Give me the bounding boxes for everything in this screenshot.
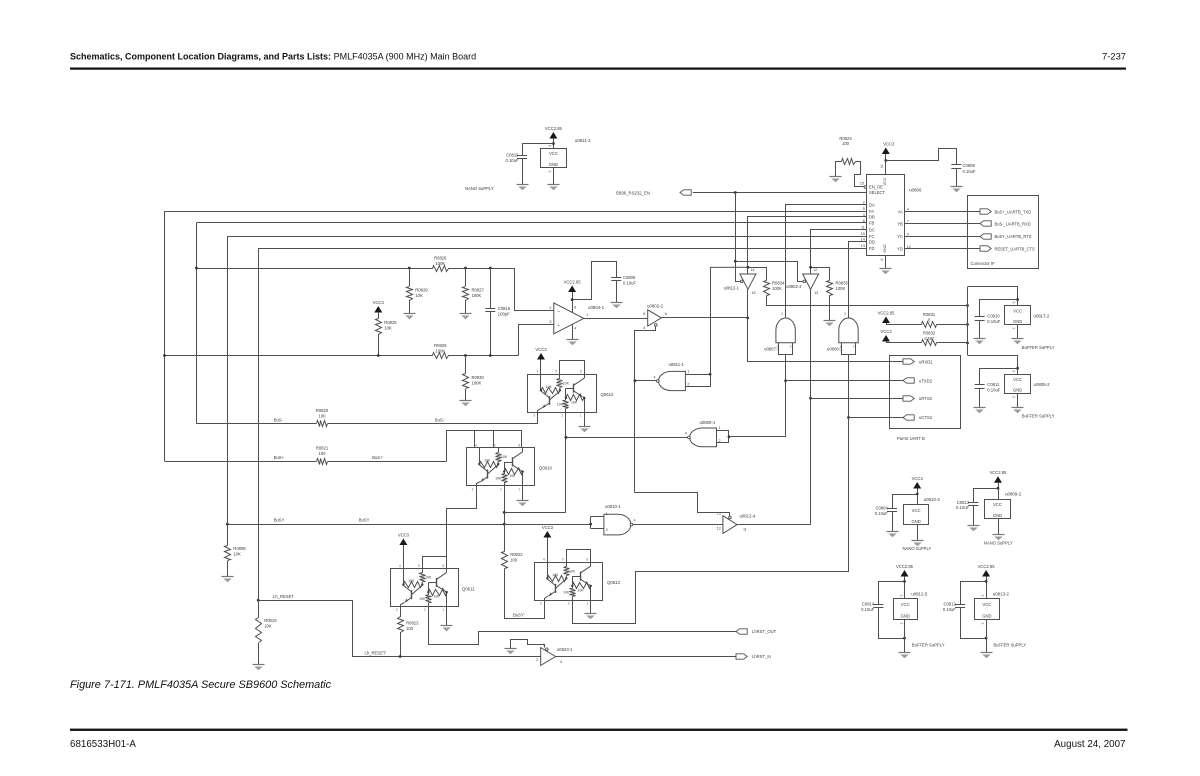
wire U0811-1 output — [635, 380, 657, 382]
svg-text:4: 4 — [475, 443, 477, 447]
junction dot u0809-2 — [997, 487, 1000, 490]
svg-text:2: 2 — [606, 528, 608, 532]
ground under R0808 — [222, 577, 234, 583]
svg-text:10K: 10K — [546, 385, 553, 389]
junction dot Q0612 left node — [540, 389, 542, 391]
junction dot Q0611 mid node — [421, 583, 423, 585]
junction dot R0827 tap — [464, 267, 467, 270]
inverter U0802-3 — [786, 268, 818, 295]
junction dot FA tap — [163, 354, 166, 357]
svg-text:VCC3: VCC3 — [398, 532, 410, 537]
AND gate U0807-1 — [764, 312, 795, 355]
wire FA drop — [164, 211, 166, 461]
svg-text:2: 2 — [1012, 396, 1016, 398]
wire cap lead C0804 — [893, 495, 918, 509]
junction dot R0834 tap — [747, 266, 750, 269]
resistor R0822 100 — [502, 524, 524, 619]
U0806 EN_OE bubble — [860, 182, 867, 189]
wire BuS- line — [196, 418, 537, 424]
svg-text:C0806: C0806 — [623, 275, 636, 280]
svg-text:LhRST_OUT: LhRST_OUT — [752, 629, 777, 634]
U0823-1 enable bubble — [546, 648, 549, 651]
svg-text:100K: 100K — [836, 286, 846, 291]
svg-text:8: 8 — [586, 558, 588, 562]
resistor R0819 10K — [256, 600, 278, 664]
supply label u0809-2 — [984, 541, 1013, 546]
U0802-2 enable bubble — [655, 324, 658, 327]
wire FB drop — [196, 223, 198, 424]
svg-text:VCC: VCC — [1013, 377, 1022, 382]
wire YA to TXD — [905, 211, 981, 213]
resistor Q0610 base 10K — [480, 459, 499, 468]
junction dot R0829 tap — [408, 267, 411, 270]
wire gnd u0809-2 — [998, 519, 1000, 535]
svg-text:DD: DD — [869, 239, 875, 244]
svg-text:VCC: VCC — [1013, 308, 1022, 313]
U0812-4 enable bubble — [729, 516, 732, 519]
VCC arrow u0810-2 — [912, 476, 924, 505]
svg-text:VCC2.85: VCC2.85 — [878, 310, 896, 315]
resistor Q0610 pullup 10K — [496, 448, 508, 464]
svg-text:FA: FA — [869, 209, 874, 214]
svg-text:10K: 10K — [563, 591, 570, 595]
resistor Q0613 pullup 10K — [564, 562, 576, 578]
svg-text:2: 2 — [687, 383, 689, 387]
svg-text:5: 5 — [863, 207, 865, 211]
svg-text:100: 100 — [510, 557, 518, 562]
svg-text:5: 5 — [1012, 370, 1016, 372]
svg-text:BuFFER SuPPLY: BuFFER SuPPLY — [1022, 345, 1055, 350]
svg-text:R0822: R0822 — [510, 552, 523, 557]
wire U0810-1 output — [633, 524, 723, 526]
svg-text:100K: 100K — [772, 286, 782, 291]
wire U0807-1 inputs to uTXD2 node — [785, 355, 787, 437]
junction dot Q0610 link — [503, 511, 506, 514]
wire SELECT net — [693, 192, 867, 194]
svg-text:9: 9 — [907, 232, 909, 236]
svg-text:2: 2 — [549, 306, 551, 310]
wire to opamp minus — [491, 269, 554, 311]
resistor Q0610 emitter 10K — [505, 469, 523, 479]
wire R0831 feed — [886, 323, 922, 325]
VCC3 arrow Q0612 — [535, 347, 547, 374]
svg-text:C0816: C0816 — [498, 306, 511, 311]
wire LH_RESET line — [259, 594, 541, 656]
svg-text:uRTS2: uRTS2 — [919, 396, 933, 401]
svg-text:R0824: R0824 — [839, 136, 852, 141]
svg-text:u08LT-2: u08LT-2 — [1034, 313, 1050, 318]
U0806 left pin names — [869, 185, 885, 251]
svg-text:NANO SuPPLY: NANO SuPPLY — [465, 186, 494, 191]
svg-text:VCC3: VCC3 — [535, 347, 547, 352]
svg-text:0.10uF: 0.10uF — [963, 169, 976, 174]
svg-text:14: 14 — [861, 238, 865, 242]
svg-text:u0805-2: u0805-2 — [1034, 382, 1051, 387]
svg-text:5: 5 — [643, 312, 645, 316]
svg-text:4: 4 — [399, 564, 401, 568]
svg-text:0.10uF: 0.10uF — [956, 505, 969, 510]
svg-text:BuS-': BuS-' — [435, 418, 445, 423]
junction dot U0810-1 tie — [589, 523, 592, 526]
svg-text:BuS+: BuS+ — [274, 455, 285, 460]
transistor Q0613 Q2 — [572, 562, 590, 600]
wire gnd u0812-5 — [904, 619, 906, 652]
svg-text:11: 11 — [743, 527, 747, 531]
inverter U0812-1 — [724, 268, 756, 295]
svg-text:NANO SuPPLY: NANO SuPPLY — [903, 546, 932, 551]
resistor Q0613 pulldown 10K — [563, 586, 575, 600]
svg-text:BuSY: BuSY — [359, 518, 370, 523]
wire U0802-2 enable — [635, 327, 656, 493]
svg-text:12: 12 — [717, 526, 721, 530]
wire VCC3 stem — [885, 154, 887, 161]
wire FD bus — [258, 248, 867, 250]
junction dot U0809-1 tie — [728, 435, 731, 438]
svg-text:2: 2 — [548, 170, 552, 172]
junction dot FB tap — [195, 267, 198, 270]
svg-text:VCC: VCC — [549, 151, 558, 156]
resistor R0821 100 — [316, 445, 329, 464]
svg-text:August 24, 2007: August 24, 2007 — [1054, 739, 1125, 750]
resistor R0829 10K — [407, 268, 429, 314]
svg-text:u0813-2: u0813-2 — [993, 592, 1010, 597]
ground under C0804 — [887, 532, 899, 538]
VCC arrow u0812-5 — [896, 564, 914, 599]
svg-text:Lh_RESET: Lh_RESET — [273, 594, 294, 599]
junction dot top u0812-5 — [903, 580, 906, 583]
svg-text:YC: YC — [897, 234, 903, 239]
svg-text:10K: 10K — [433, 595, 440, 599]
svg-text:0 NP: 0 NP — [924, 336, 934, 341]
svg-text:+: + — [557, 324, 560, 329]
svg-text:BuFFER SuPPLY: BuFFER SuPPLY — [912, 642, 945, 647]
capacitor C0812 0.10uF loop — [943, 582, 987, 639]
resistor R0832 0 NP — [922, 330, 937, 345]
resistor R0823 100 — [398, 606, 420, 656]
svg-text:BuFFER SuPPLY: BuFFER SuPPLY — [993, 642, 1026, 647]
svg-text:GND: GND — [1013, 388, 1022, 393]
junction dot Q0611 right node — [446, 591, 448, 593]
svg-text:1: 1 — [580, 414, 582, 418]
svg-text:5: 5 — [562, 558, 564, 562]
pin numbers Q0611 — [396, 564, 445, 612]
header rule — [70, 68, 1126, 70]
svg-text:Q0610: Q0610 — [539, 466, 553, 471]
svg-text:5: 5 — [555, 370, 557, 374]
junction dot U0804 VCC — [571, 298, 574, 301]
svg-text:0.10uF: 0.10uF — [987, 387, 1000, 392]
svg-text:10K: 10K — [571, 400, 578, 404]
ground under U0806 — [880, 269, 892, 275]
NAND U0809-1 — [685, 420, 721, 447]
wire U0811-1 input riser — [710, 267, 712, 374]
svg-text:VCC3: VCC3 — [883, 141, 895, 146]
svg-text:15: 15 — [860, 182, 864, 186]
junction dot LH_RESET corner — [257, 599, 260, 602]
wire FD drop — [258, 248, 260, 600]
junction dot BuSY corner — [226, 523, 229, 526]
junction dot R0825 tap — [377, 354, 380, 357]
wire inverting net — [196, 268, 490, 270]
resistor R0808 10K — [225, 524, 247, 576]
BUFFER SUPPLY label 2 — [1022, 414, 1055, 419]
Parrot UART B box — [890, 356, 961, 441]
svg-text:u0811-1: u0811-1 — [669, 362, 685, 367]
svg-text:VCC2.85: VCC2.85 — [564, 279, 582, 284]
svg-text:10K: 10K — [577, 588, 584, 592]
svg-text:R0823: R0823 — [406, 620, 419, 625]
svg-text:VCC: VCC — [883, 177, 887, 185]
wire U0809-1 output — [566, 437, 688, 439]
svg-text:BuFFER SuPPLY: BuFFER SuPPLY — [1022, 414, 1055, 419]
junction dot Q0610 mid node — [497, 463, 499, 465]
svg-text:BuSY': BuSY' — [513, 612, 525, 617]
junction dot Q0612 right node — [583, 397, 585, 399]
VCC2.85 arrow U0804 — [564, 279, 582, 292]
svg-text:10K: 10K — [484, 459, 491, 463]
junction dot Q0610 base node — [503, 470, 505, 472]
svg-text:10K: 10K — [569, 569, 576, 573]
wire FC bus — [227, 236, 867, 238]
svg-text:10K: 10K — [509, 474, 516, 478]
svg-text:R0826: R0826 — [434, 256, 447, 261]
svg-text:Parrot UART B: Parrot UART B — [897, 436, 925, 441]
svg-text:C0811: C0811 — [987, 382, 1000, 387]
svg-text:2: 2 — [1012, 327, 1016, 329]
flag BuS-_UARTB_RXD — [980, 221, 1031, 227]
resistor Q0613 base 10K — [548, 573, 567, 582]
wire R0824 left to ground — [836, 162, 842, 177]
wire YB to RXD — [905, 223, 981, 225]
svg-text:1: 1 — [719, 426, 721, 430]
resistor Q0612 pulldown 10K — [557, 398, 569, 412]
power symbol U0811-2 — [541, 138, 592, 168]
svg-text:3: 3 — [899, 595, 903, 597]
svg-text:GND: GND — [982, 613, 991, 618]
figure caption — [70, 679, 332, 691]
svg-text:VCC: VCC — [982, 602, 991, 607]
wire uCTS2 line — [849, 417, 904, 419]
svg-text:1: 1 — [776, 345, 778, 349]
svg-text:3: 3 — [844, 312, 846, 316]
wire R0831 to feed — [937, 324, 968, 326]
svg-text:0.10uF: 0.10uF — [623, 281, 636, 286]
wire Q0613 collector rail — [547, 562, 549, 578]
svg-text:1: 1 — [586, 313, 588, 317]
capacitor C0816 100pF — [485, 268, 511, 356]
U0806 right pin names — [897, 208, 911, 252]
junction dot R0830 tap — [464, 354, 467, 357]
junction dot U08LT VCC — [1016, 298, 1019, 301]
wire gnd u0813-2 — [986, 619, 988, 652]
svg-text:100K: 100K — [472, 293, 482, 298]
svg-text:BuS-: BuS- — [274, 418, 284, 423]
resistor R0828 100K — [433, 343, 449, 358]
svg-text:2: 2 — [981, 622, 985, 624]
svg-text:FC: FC — [869, 234, 875, 239]
svg-text:100: 100 — [842, 141, 850, 146]
wire R0824 to EN_OE — [855, 162, 865, 187]
capacitor C0813 0.10uF — [956, 500, 978, 526]
junction dot Q0612 base node — [565, 397, 567, 399]
ground under R0835 — [824, 321, 836, 327]
junction dot u0810-2 — [916, 493, 919, 496]
svg-text:0.10uF: 0.10uF — [987, 319, 1000, 324]
flag LhRST_In — [736, 654, 772, 659]
transistor Q0611 Q1 — [401, 585, 423, 606]
BUFFER SUPPLY label 1 — [1022, 345, 1055, 350]
wire DD bus — [849, 242, 867, 319]
svg-text:1: 1 — [586, 602, 588, 606]
wire Q0611 top loop — [423, 557, 447, 569]
svg-text:0.10uF: 0.10uF — [943, 607, 956, 612]
wire SELECT drop — [735, 193, 737, 262]
svg-text:u0812-1: u0812-1 — [724, 285, 740, 290]
svg-text:R0835: R0835 — [836, 281, 849, 286]
footer rule — [70, 729, 1128, 731]
header page number — [1102, 51, 1126, 62]
svg-text:R0821: R0821 — [316, 445, 329, 450]
svg-text:8: 8 — [518, 443, 520, 447]
wire supply rail — [767, 296, 968, 306]
svg-text:u0802-2: u0802-2 — [647, 304, 664, 309]
junction dot Q0610 left node — [478, 463, 480, 465]
NAND U0810-1 — [604, 504, 636, 535]
ground under C0808 — [951, 187, 963, 193]
wire BuSY line — [227, 518, 590, 525]
junction dot Q0613 left node — [546, 577, 548, 579]
junction dot uRTS2 tap — [809, 397, 812, 400]
wire uRTS2 line — [811, 398, 904, 400]
VCC arrow u0809-2 — [990, 470, 1008, 499]
resistor Q0611 emitter 10K — [429, 590, 447, 599]
svg-text:VCC: VCC — [912, 508, 921, 513]
wire supply feed vertical — [967, 287, 969, 355]
footer date — [1054, 739, 1125, 750]
svg-text:5: 5 — [418, 564, 420, 568]
power symbol u0810-2 — [904, 497, 941, 524]
wire YD to CTS — [905, 248, 981, 250]
ground under u0809-2 — [993, 535, 1005, 541]
junction dot R0835 tap — [809, 266, 812, 269]
ground under C0813 — [968, 526, 980, 532]
svg-text:BuS-_UARTB_RXD: BuS-_UARTB_RXD — [995, 221, 1031, 226]
svg-text:uRXD2: uRXD2 — [919, 359, 933, 364]
wire YC to RTS — [905, 236, 981, 238]
svg-text:1: 1 — [518, 487, 520, 491]
footer document number — [70, 739, 136, 750]
wire U0804 output — [584, 318, 648, 320]
svg-text:4: 4 — [543, 558, 545, 562]
transistor Q0611 Q2 — [428, 568, 446, 606]
junction dot C0816 top — [489, 267, 492, 270]
junction dot U0811 VCC — [552, 142, 555, 145]
pin numbers Q0613 — [540, 558, 589, 606]
svg-text:YD: YD — [897, 247, 903, 252]
svg-text:100K: 100K — [435, 261, 445, 266]
resistor R0826 100K — [433, 256, 449, 272]
wire DB bus — [748, 217, 867, 275]
flag uRXD2 — [903, 359, 933, 365]
svg-text:RESET_UARTB_CTS: RESET_UARTB_CTS — [995, 247, 1035, 252]
svg-text:3: 3 — [781, 312, 783, 316]
svg-text:16: 16 — [880, 165, 884, 169]
svg-text:2: 2 — [500, 487, 502, 491]
SB96_RS232_EN label — [616, 190, 650, 195]
wire Q0612 pin3 — [537, 412, 539, 424]
svg-text:2: 2 — [853, 345, 855, 349]
svg-text:R0830: R0830 — [472, 375, 485, 380]
svg-text:VCC3: VCC3 — [880, 329, 892, 334]
svg-text:GND: GND — [901, 613, 910, 618]
wire Q0613 top loop — [567, 550, 591, 563]
buffer U0812-4 — [717, 512, 756, 534]
svg-text:3: 3 — [540, 602, 542, 606]
wire U0810-1 input ties — [591, 517, 604, 529]
svg-text:GND: GND — [1013, 319, 1022, 324]
svg-text:R0819: R0819 — [264, 618, 277, 623]
wire Q0612 top loop — [560, 361, 585, 375]
IC U0806 body — [867, 175, 922, 256]
svg-text:C0814: C0814 — [862, 602, 875, 607]
svg-text:10K: 10K — [408, 579, 415, 583]
svg-text:4: 4 — [643, 326, 645, 330]
transistor block Q0610 box — [467, 448, 553, 486]
capacitor C0810 0.10uF — [975, 314, 1001, 339]
svg-text:4: 4 — [537, 370, 539, 374]
svg-text:FB: FB — [869, 221, 875, 226]
svg-text:VCC2.85: VCC2.85 — [990, 470, 1008, 475]
svg-text:C0808: C0808 — [963, 163, 976, 168]
transistor Q0610 Q1 — [477, 465, 499, 486]
svg-text:3: 3 — [396, 608, 398, 612]
ground under u0812-5 — [899, 653, 911, 659]
svg-text:3: 3 — [549, 320, 551, 324]
capacitor C0815 0.10uF — [505, 153, 527, 185]
pin numbers Q0612 — [533, 370, 582, 418]
svg-text:2: 2 — [863, 201, 865, 205]
ground under R0819 — [253, 665, 265, 671]
ground under R0824 — [830, 177, 842, 183]
wire enable rail — [736, 262, 803, 282]
svg-text:−: − — [557, 310, 560, 315]
wire Q0612 pin2 drop — [565, 412, 567, 512]
resistor R0825 10K — [376, 313, 398, 356]
capacitor C0814 0.10uF loop — [861, 582, 904, 639]
wire Q0611 pin1 gnd — [446, 606, 448, 625]
svg-text:VCC: VCC — [993, 502, 1002, 507]
svg-text:4: 4 — [653, 376, 655, 380]
ground under U0823-1 tie — [505, 649, 517, 655]
wire U0805-2 gnd — [1017, 393, 1019, 407]
supply label u0810-2 — [903, 546, 932, 551]
resistor Q0611 pulldown 10K — [419, 592, 431, 606]
svg-text:2: 2 — [899, 622, 903, 624]
junction dot Q0610 right node — [521, 470, 523, 472]
resistor R0834 100K — [748, 268, 786, 296]
U0812-1 enable bubble — [740, 280, 743, 283]
resistor Q0612 base 10K — [541, 385, 560, 394]
wire feed top loop — [968, 287, 1018, 306]
ground under C0811 — [974, 408, 986, 414]
svg-text:3: 3 — [472, 487, 474, 491]
resistor R0827 100K — [463, 268, 485, 314]
power symbol u0812-5 — [894, 592, 928, 625]
svg-text:13: 13 — [861, 244, 865, 248]
capacitor C0811 0.10uF — [975, 382, 1001, 408]
svg-text:u0809-2: u0809-2 — [1005, 491, 1022, 496]
svg-text:R0827: R0827 — [472, 287, 485, 292]
